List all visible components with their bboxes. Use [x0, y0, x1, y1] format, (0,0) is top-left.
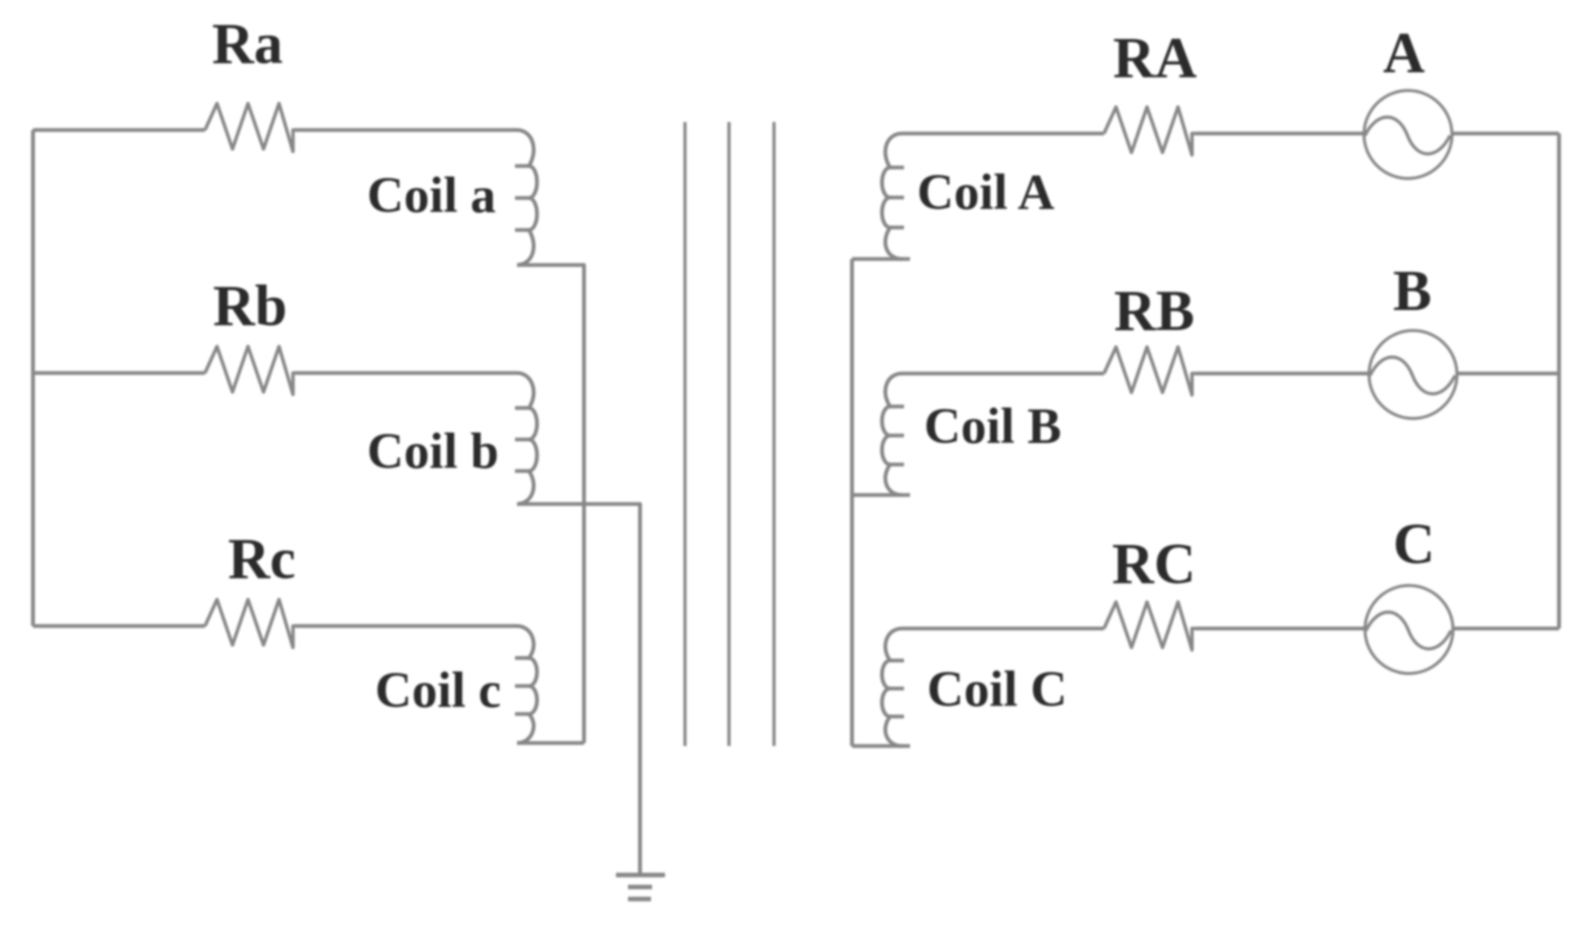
svg-text:Coil a: Coil a — [367, 168, 496, 224]
source A — [1364, 91, 1452, 179]
wire coil B bottom stub — [852, 493, 910, 497]
coil A — [882, 134, 902, 260]
source C — [1365, 586, 1453, 674]
svg-text:B: B — [1393, 258, 1432, 323]
wire source C to right rail — [1453, 627, 1559, 631]
coil B — [882, 374, 902, 496]
coil b — [517, 373, 537, 504]
svg-text:RC: RC — [1112, 531, 1196, 596]
svg-text:Coil b: Coil b — [367, 424, 499, 480]
wire coil b to ground — [517, 504, 640, 875]
svg-text:Ra: Ra — [212, 11, 283, 76]
wire RB to source B — [1196, 372, 1369, 376]
wire source A to right rail — [1452, 132, 1559, 136]
wire row C coil to RC — [902, 627, 1104, 631]
wire Ra to coil a — [296, 128, 517, 132]
svg-text:Coil C: Coil C — [927, 662, 1067, 718]
wire right-side left rail — [850, 259, 854, 746]
svg-text:A: A — [1383, 20, 1425, 85]
wire row a left — [33, 128, 205, 132]
svg-text:RA: RA — [1113, 25, 1197, 90]
wire row b left — [33, 371, 205, 375]
wire RA to source A — [1196, 132, 1364, 136]
wire source B to right rail — [1457, 372, 1559, 376]
svg-text:RB: RB — [1114, 278, 1195, 343]
svg-text:Coil A: Coil A — [917, 165, 1055, 221]
wire RC to source C — [1196, 627, 1365, 631]
wire coil a bottom junction — [517, 265, 584, 743]
resistor Ra — [205, 104, 296, 152]
source B — [1369, 331, 1457, 419]
svg-text:Rb: Rb — [213, 273, 287, 338]
svg-text:Rc: Rc — [228, 526, 296, 591]
wire row A coil to RA — [902, 132, 1104, 136]
resistor RA — [1104, 107, 1196, 155]
resistor RB — [1104, 347, 1196, 395]
wire row B coil to RB — [902, 372, 1104, 376]
wire right rail — [1557, 134, 1561, 629]
coil a — [517, 130, 537, 265]
svg-text:Coil c: Coil c — [375, 663, 501, 719]
wire row c left — [33, 624, 205, 628]
wire left rail — [31, 130, 35, 626]
svg-text:C: C — [1393, 511, 1435, 576]
wire Rc to coil c — [296, 624, 517, 628]
svg-text:Coil B: Coil B — [924, 399, 1061, 455]
coil c — [517, 626, 537, 743]
wire Rb to coil b — [296, 371, 517, 375]
wire coil A bottom stub — [852, 257, 910, 261]
transformer core — [683, 122, 686, 746]
coil C — [882, 629, 902, 747]
wire coil C bottom stub — [852, 744, 910, 748]
wire coil c bottom junction — [517, 741, 584, 745]
resistor Rc — [205, 600, 296, 648]
ground — [616, 873, 665, 878]
resistor RC — [1104, 602, 1196, 650]
resistor Rb — [205, 347, 296, 395]
